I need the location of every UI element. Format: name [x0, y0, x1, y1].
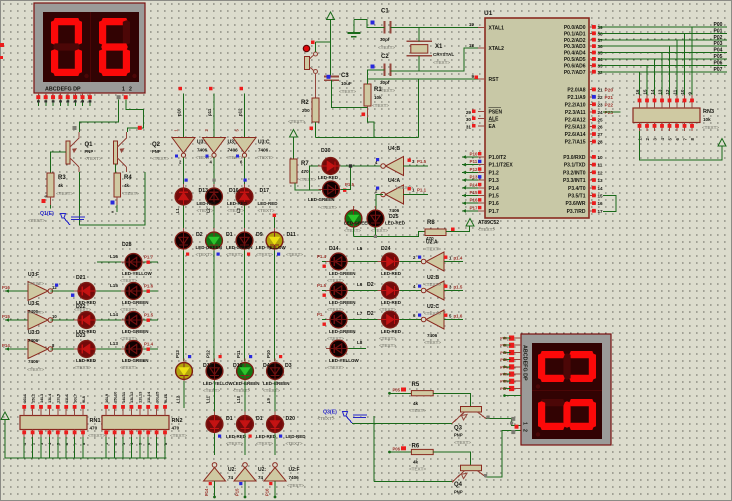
- svg-text:P1.6: P1.6: [489, 201, 500, 207]
- resistor R8: [424, 220, 455, 252]
- svg-text:P3.0/RXD: P3.0/RXD: [563, 155, 586, 161]
- svg-text:<TEXT>: <TEXT>: [702, 125, 719, 130]
- svg-text:P3.7/RD: P3.7/RD: [567, 209, 586, 215]
- svg-text:LED-GREEN: LED-GREEN: [329, 329, 356, 334]
- svg-text:P1.0/T2: P1.0/T2: [489, 155, 507, 161]
- LED D25 row B1: [175, 228, 192, 253]
- svg-text:<TEXT>: <TEXT>: [409, 467, 426, 472]
- svg-text:LED-RED: LED-RED: [381, 271, 402, 276]
- probe Q1(E): [28, 211, 85, 225]
- wires row B down to row C: [175, 250, 275, 361]
- resistor R6: [388, 444, 433, 472]
- wires row C to row D: [176, 381, 276, 414]
- svg-text:30pf: 30pf: [380, 80, 390, 85]
- U1 left pin labels: [478, 26, 513, 215]
- svg-text:P3.6/WR: P3.6/WR: [565, 201, 585, 207]
- svg-text:P2.1/A9: P2.1/A9: [567, 95, 585, 101]
- svg-text:P0.2/AD2: P0.2/AD2: [564, 38, 586, 44]
- svg-text:LED-RED: LED-RED: [76, 300, 97, 305]
- svg-text:D16: D16: [229, 188, 239, 194]
- svg-text:16L9: 16L9: [104, 393, 109, 403]
- svg-text:LED-GREEN: LED-GREEN: [329, 271, 356, 276]
- svg-text:P14: P14: [470, 182, 479, 187]
- svg-text:P04: P04: [500, 365, 508, 369]
- svg-text:470: 470: [172, 426, 180, 431]
- svg-text:LED-RED: LED-RED: [381, 329, 402, 334]
- capacitor C1: [378, 9, 395, 51]
- svg-text:D1: D1: [226, 232, 233, 238]
- LED D18 row D2: [237, 412, 254, 437]
- svg-text:R5: R5: [412, 382, 420, 388]
- svg-text:L8: L8: [357, 340, 363, 345]
- svg-text:RN1: RN1: [90, 418, 101, 424]
- svg-text:19: 19: [469, 22, 475, 27]
- power terminal VCC top: [327, 12, 335, 76]
- svg-text:<TEXT>: <TEXT>: [318, 416, 335, 421]
- svg-text:LED-RED: LED-RED: [381, 300, 402, 305]
- svg-text:P23: P23: [605, 110, 614, 116]
- LED D16b: [326, 311, 351, 328]
- svg-text:EA: EA: [489, 124, 496, 130]
- svg-text:P02: P02: [714, 35, 723, 41]
- svg-text:D9: D9: [256, 232, 263, 238]
- svg-text:<TEXT>: <TEXT>: [27, 310, 44, 315]
- row B labels: [186, 232, 303, 257]
- svg-text:<TEXT>: <TEXT>: [379, 343, 396, 348]
- LED D31 green dark: [308, 181, 355, 210]
- svg-text:P1.: P1.: [317, 312, 324, 317]
- svg-text:PNP: PNP: [454, 490, 463, 495]
- svg-text:15: 15: [643, 89, 648, 94]
- svg-text:LED-GREEN: LED-GREEN: [122, 300, 149, 305]
- svg-text:P15: P15: [2, 314, 10, 319]
- svg-text:4k: 4k: [413, 460, 419, 465]
- capacitor C3: [324, 73, 356, 94]
- LED D29: [378, 311, 403, 328]
- svg-text:<TEXT>: <TEXT>: [120, 336, 137, 341]
- svg-text:<TEXT>: <TEXT>: [379, 307, 396, 312]
- svg-text:LED-RED: LED-RED: [286, 434, 307, 439]
- svg-text:U3:E: U3:E: [28, 301, 40, 307]
- inverter U3:D: [27, 310, 53, 372]
- svg-text:P1.4: P1.4: [317, 254, 327, 259]
- wire D26 D25 bottoms: [354, 227, 376, 237]
- svg-text:PNP: PNP: [85, 149, 94, 154]
- LED D22: [74, 312, 99, 329]
- svg-text:P1.1: P1.1: [417, 188, 427, 193]
- svg-text:AT89C52: AT89C52: [478, 220, 499, 226]
- svg-text:<TEXT>: <TEXT>: [233, 388, 250, 393]
- svg-text:P11: P11: [470, 159, 478, 164]
- resistor R7: [290, 159, 316, 183]
- inverter U4:B: [375, 146, 428, 176]
- svg-text:P06: P06: [500, 380, 507, 384]
- svg-text:11: 11: [598, 163, 603, 168]
- svg-text:31: 31: [466, 125, 472, 130]
- wire P2.3 stub: [603, 111, 621, 113]
- svg-text:P05: P05: [714, 54, 723, 60]
- svg-text:9: 9: [471, 74, 474, 79]
- svg-text:29: 29: [466, 110, 472, 115]
- svg-text:15: 15: [598, 194, 604, 199]
- svg-text:7406: 7406: [228, 148, 239, 153]
- wire C2 left join: [327, 21, 385, 86]
- svg-text:P07: P07: [500, 387, 507, 391]
- wire R2 bottom to rail: [310, 122, 316, 138]
- svg-text:10k: 10k: [703, 117, 711, 122]
- svg-text:P0.3/AD3: P0.3/AD3: [564, 44, 586, 50]
- svg-text:CRYSTAL: CRYSTAL: [433, 52, 454, 57]
- row A labels: [175, 188, 278, 213]
- svg-text:D1: D1: [256, 416, 263, 422]
- wire Q4 collector to display: [484, 431, 521, 478]
- svg-text:P15: P15: [235, 488, 240, 496]
- svg-text:Q1(E): Q1(E): [40, 211, 54, 217]
- svg-text:P01: P01: [714, 28, 723, 34]
- svg-text:7406: 7406: [28, 359, 39, 364]
- node grey junction: [73, 126, 77, 130]
- svg-text:11L14: 11L14: [146, 391, 151, 403]
- svg-text:<TEXT>: <TEXT>: [74, 307, 91, 312]
- svg-text:L1: L1: [175, 207, 180, 213]
- wires row A to row B: [184, 206, 277, 232]
- LED D25 dark: [344, 206, 406, 233]
- LED D30: [318, 148, 343, 180]
- svg-text:11L6: 11L6: [64, 393, 69, 403]
- svg-text:<TEXT>: <TEXT>: [339, 89, 356, 94]
- svg-text:470: 470: [301, 169, 309, 174]
- R3 bottom stub: [42, 195, 51, 209]
- svg-text:12L13: 12L13: [138, 391, 143, 403]
- svg-text:D1: D1: [226, 416, 233, 422]
- svg-text:<TEXT>: <TEXT>: [409, 408, 426, 413]
- svg-text:U2:: U2:: [228, 467, 236, 473]
- svg-text:P07: P07: [714, 67, 723, 73]
- svg-text:D2: D2: [367, 311, 374, 317]
- inverter U2:D: [204, 463, 237, 481]
- inverter U2:C row: [421, 304, 444, 345]
- svg-text:R2: R2: [301, 100, 309, 106]
- wire Q4 emitter left: [374, 481, 452, 483]
- gate input stubs bottom: [204, 481, 275, 497]
- resistor network RN1: [20, 393, 105, 458]
- resistor R4: [114, 173, 139, 197]
- svg-text:2: 2: [129, 87, 132, 93]
- svg-text:P1.4: P1.4: [489, 186, 500, 192]
- svg-text:L11: L11: [206, 395, 211, 403]
- wire RST: [368, 70, 479, 84]
- svg-text:10k: 10k: [374, 95, 382, 100]
- display DS2 pins: [500, 336, 521, 435]
- svg-text:200: 200: [302, 108, 310, 113]
- svg-text:LED-RED: LED-RED: [76, 358, 97, 363]
- wire U4A input: [376, 195, 383, 209]
- svg-text:16: 16: [598, 201, 604, 206]
- wire LEDs to U4B: [340, 164, 383, 189]
- svg-text:P12: P12: [206, 350, 211, 358]
- wire terminals below gates: [213, 496, 276, 499]
- svg-text:<TEXT>: <TEXT>: [120, 307, 137, 312]
- svg-text:P1.5: P1.5: [489, 194, 500, 200]
- svg-text:10uF: 10uF: [341, 81, 352, 86]
- LED D19 row D1: [206, 412, 223, 437]
- svg-text:ABCDEFG DP: ABCDEFG DP: [522, 345, 528, 381]
- U1 left pin numbers: [466, 22, 478, 130]
- svg-text:<TEXT>: <TEXT>: [256, 252, 273, 257]
- net stubs left edge: [2, 285, 28, 351]
- svg-text:P3.1/TXD: P3.1/TXD: [564, 163, 586, 169]
- IC U1 AT89C52: [484, 10, 589, 218]
- svg-text:p11: p11: [207, 108, 212, 116]
- wire crystal top to XTAL1 net: [418, 28, 420, 42]
- power terminal R7: [290, 130, 298, 160]
- svg-text:27: 27: [598, 132, 604, 137]
- LED D17b yellow-label: [326, 340, 351, 357]
- inverter U4:A: [375, 178, 428, 204]
- svg-text:<TEXT>: <TEXT>: [170, 433, 187, 438]
- svg-text:P03: P03: [500, 358, 507, 362]
- svg-text:14L11: 14L11: [121, 391, 126, 403]
- svg-text:P3.5/T1: P3.5/T1: [568, 194, 586, 200]
- svg-text:LED-GREEN: LED-GREEN: [308, 197, 335, 202]
- svg-text:10L7: 10L7: [72, 393, 77, 403]
- svg-text:15L2: 15L2: [30, 393, 35, 403]
- row C labels: [188, 355, 292, 393]
- svg-text:P1.4: P1.4: [144, 342, 154, 347]
- svg-text:22: 22: [598, 95, 604, 100]
- svg-text:<TEXT>: <TEXT>: [74, 365, 91, 370]
- svg-text:L15: L15: [110, 283, 118, 288]
- resistor R5: [388, 382, 433, 413]
- wire R7 bottom: [295, 183, 321, 190]
- svg-text:P2.0/A8: P2.0/A8: [567, 88, 585, 94]
- wire D30 branch: [310, 166, 322, 190]
- svg-text:14: 14: [598, 186, 604, 191]
- svg-text:23: 23: [598, 102, 604, 107]
- left group second column labels: [120, 242, 152, 370]
- svg-text:<TEXT>: <TEXT>: [286, 252, 303, 257]
- svg-text:<TEXT>: <TEXT>: [226, 441, 243, 446]
- svg-text:LED-RED: LED-RED: [256, 434, 277, 439]
- svg-text:470: 470: [90, 426, 98, 431]
- svg-text:D25: D25: [389, 214, 399, 220]
- svg-text:LED-GREEN: LED-GREEN: [344, 221, 371, 226]
- display DS1 pins: [36, 93, 127, 106]
- svg-text:<TEXT>: <TEXT>: [88, 433, 105, 438]
- svg-text:P06: P06: [393, 447, 401, 452]
- svg-text:9L16: 9L16: [163, 393, 168, 403]
- svg-text:D17: D17: [260, 188, 270, 194]
- LED D26 green: [345, 206, 362, 231]
- crystal X1: [407, 41, 455, 65]
- svg-text:<TEXT>: <TEXT>: [263, 388, 280, 393]
- transistor Q3: [452, 407, 486, 446]
- svg-text:Q1: Q1: [85, 142, 94, 148]
- svg-text:<TEXT>: <TEXT>: [327, 365, 344, 370]
- svg-text:p1.4: p1.4: [454, 256, 463, 261]
- svg-text:LED-YELLOW: LED-YELLOW: [122, 271, 152, 276]
- wire P0 bus: [598, 27, 727, 95]
- wires D24 to U2 gates: [400, 255, 423, 320]
- LED D23: [74, 341, 99, 358]
- svg-text:R3: R3: [58, 175, 66, 181]
- svg-text:P00: P00: [500, 337, 507, 341]
- svg-text:LED-GREEN: LED-GREEN: [196, 245, 223, 250]
- LED left row2: [121, 283, 146, 300]
- LED D13: [175, 184, 192, 209]
- LED D14: [326, 253, 351, 270]
- LED D2 green row B2: [206, 228, 223, 253]
- LED D24: [378, 253, 403, 270]
- svg-text:21: 21: [598, 88, 604, 93]
- svg-text:U2:B: U2:B: [427, 275, 439, 281]
- svg-text:LED-RED: LED-RED: [318, 175, 339, 180]
- svg-text:LED-GREEN: LED-GREEN: [122, 329, 149, 334]
- svg-text:P0.4/AD4: P0.4/AD4: [564, 51, 586, 57]
- svg-text:P13: P13: [175, 350, 180, 358]
- svg-text:9L8: 9L8: [81, 395, 86, 403]
- LED D20 row D3: [267, 412, 284, 437]
- svg-text:<TEXT>: <TEXT>: [320, 205, 337, 210]
- svg-text:C3: C3: [341, 73, 349, 79]
- wire left rail x374: [373, 416, 375, 482]
- svg-text:74: 74: [228, 475, 234, 480]
- svg-text:12L5: 12L5: [56, 393, 61, 403]
- svg-text:1: 1: [122, 87, 125, 93]
- svg-text:P03: P03: [714, 41, 723, 47]
- svg-text:C1: C1: [381, 9, 389, 15]
- svg-text:P0.1/AD1: P0.1/AD1: [564, 31, 586, 37]
- svg-text:P17: P17: [470, 205, 479, 210]
- svg-text:P1.5: P1.5: [144, 313, 154, 318]
- resistor R3: [47, 173, 73, 197]
- LED D21: [74, 283, 99, 300]
- svg-text:LED-RED: LED-RED: [258, 201, 279, 206]
- svg-text:U2:A: U2:A: [426, 240, 438, 246]
- svg-text:<TEXT>: <TEXT>: [424, 340, 441, 345]
- svg-text:<TEXT>: <TEXT>: [257, 155, 274, 160]
- svg-text:XTAL1: XTAL1: [489, 26, 505, 32]
- svg-text:R1: R1: [374, 87, 382, 93]
- svg-text:L16: L16: [110, 254, 118, 259]
- svg-text:P12: P12: [470, 167, 479, 172]
- svg-text:25: 25: [598, 117, 604, 122]
- svg-text:P0.5/AD5: P0.5/AD5: [564, 57, 586, 63]
- svg-text:<TEXT>: <TEXT>: [196, 252, 213, 257]
- wire C3 bottom: [332, 92, 368, 108]
- wire reset rail: [316, 137, 419, 139]
- transistor Q4: [452, 465, 486, 494]
- resistor network RN3: [633, 89, 719, 140]
- svg-text:ABCDEFG DP: ABCDEFG DP: [45, 87, 81, 93]
- svg-text:74: 74: [258, 475, 264, 480]
- svg-text:4k: 4k: [124, 183, 130, 188]
- svg-text:<TEXT>: <TEXT>: [327, 307, 344, 312]
- svg-text:P22: P22: [605, 102, 614, 108]
- LED D17: [236, 184, 253, 209]
- svg-text:P1.6: P1.6: [144, 284, 154, 289]
- svg-text:L7: L7: [357, 311, 363, 316]
- wire R5 to Q3 base: [433, 393, 470, 406]
- wire C1 right to XTAL1: [391, 27, 479, 29]
- svg-text:Q4: Q4: [454, 482, 463, 488]
- wire P3.5-P3.7 bracket: [603, 196, 616, 212]
- svg-text:L12: L12: [176, 395, 181, 403]
- svg-text:p10: p10: [176, 108, 181, 116]
- svg-text:C2: C2: [381, 54, 389, 60]
- row D labels: [218, 416, 306, 446]
- svg-text:<TEXT>: <TEXT>: [433, 60, 450, 65]
- wire RN commons rail: [5, 420, 167, 459]
- LED left row4: [121, 341, 146, 358]
- LED D15: [326, 282, 351, 299]
- svg-text:P0.0/AD0: P0.0/AD0: [564, 25, 586, 31]
- resistor R2: [288, 98, 319, 124]
- svg-text:<TEXT>: <TEXT>: [122, 191, 139, 196]
- ground symbol: [347, 20, 360, 37]
- svg-text:P2.3/A11: P2.3/A11: [565, 110, 586, 116]
- probe Q3(E): [318, 410, 368, 424]
- svg-text:P3.2/INT0: P3.2/INT0: [563, 170, 586, 176]
- svg-text:U1: U1: [484, 10, 493, 17]
- svg-text:<TEXT>: <TEXT>: [344, 228, 361, 233]
- svg-text:U3:F: U3:F: [28, 272, 39, 278]
- svg-text:D11: D11: [287, 232, 296, 238]
- svg-text:<TEXT>: <TEXT>: [203, 388, 220, 393]
- wire RST junction down: [418, 79, 420, 138]
- top row squares: [185, 179, 247, 182]
- svg-text:P1.1/T2EX: P1.1/T2EX: [489, 163, 514, 169]
- wire C1 left to ground: [354, 20, 385, 28]
- transistor Q1: [66, 132, 102, 172]
- svg-text:<TEXT>: <TEXT>: [378, 45, 395, 50]
- svg-text:30pf: 30pf: [380, 37, 390, 42]
- svg-text:<TEXT>: <TEXT>: [152, 156, 169, 161]
- svg-text:RN3: RN3: [703, 109, 714, 115]
- svg-text:LED-GREEN: LED-GREEN: [122, 358, 149, 363]
- wire probe tap: [352, 422, 375, 424]
- svg-text:16L1: 16L1: [22, 393, 27, 403]
- LED D19 row B3: [236, 228, 253, 253]
- svg-text:P00: P00: [714, 22, 723, 28]
- svg-text:U2:F: U2:F: [289, 467, 300, 473]
- U1 right pin numbers: [592, 25, 603, 214]
- svg-text:D2: D2: [367, 282, 374, 288]
- svg-text:<TEXT>: <TEXT>: [379, 336, 396, 341]
- svg-text:10: 10: [680, 89, 685, 94]
- svg-text:P10: P10: [470, 152, 479, 157]
- wire RN3 pin1 to power: [640, 131, 723, 160]
- svg-text:P06: P06: [714, 60, 723, 66]
- svg-text:P05: P05: [393, 388, 401, 393]
- wire Q3 collector to display: [486, 416, 521, 426]
- U2 gate outputs: [444, 256, 463, 320]
- left group right stubs: [71, 255, 158, 351]
- svg-text:R6: R6: [412, 444, 420, 450]
- svg-text:<TEXT>: <TEXT>: [371, 228, 388, 233]
- svg-text:1: 1: [522, 422, 528, 425]
- wire R6 to Q4 base: [433, 452, 470, 465]
- U1 right pin labels: [563, 25, 596, 215]
- svg-text:U3:C: U3:C: [258, 140, 270, 146]
- svg-text:R4: R4: [124, 175, 132, 181]
- svg-text:<TEXT>: <TEXT>: [424, 311, 441, 316]
- svg-text:P20: P20: [605, 88, 614, 94]
- wire crystal bottom to XTAL2: [391, 48, 479, 71]
- LED D10 green row C3: [237, 359, 254, 384]
- svg-text:U4:A: U4:A: [388, 178, 400, 184]
- svg-text:P02: P02: [500, 351, 507, 355]
